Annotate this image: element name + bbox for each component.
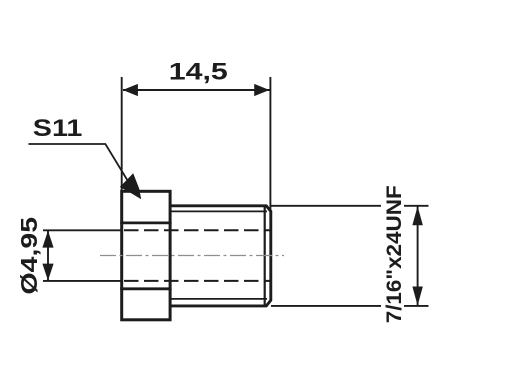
- hex head body: [122, 191, 170, 319]
- dim 14,5 extension line right: [269, 77, 271, 211]
- thread chamfer line: [264, 206, 266, 306]
- thread spec extension line top: [271, 205, 429, 207]
- thread spec arrow up: [412, 206, 423, 225]
- S11 leader line: [29, 144, 129, 182]
- dim 14,5 arrow left: [123, 84, 138, 96]
- thread root line bottom: [171, 298, 267, 300]
- centerline (chain line): [100, 255, 284, 257]
- bore hidden line top: [124, 229, 270, 231]
- thread spec extension line bottom: [271, 305, 429, 307]
- dim 14,5 arrow right: [254, 84, 269, 96]
- S11 leader arrowhead: [120, 173, 141, 199]
- dim 14,5 extension line left: [121, 77, 123, 190]
- thread root line top: [171, 210, 267, 212]
- dia 4,95 extension line top: [43, 229, 121, 231]
- dia 4,95 dimension line: [47, 231, 49, 280]
- svg-text:7/16"x24UNF: 7/16"x24UNF: [381, 185, 406, 323]
- hex facet line lower: [120, 287, 171, 290]
- svg-text:14,5: 14,5: [169, 60, 228, 86]
- hex facet line upper: [120, 221, 171, 224]
- dim 14,5 dimension line: [123, 89, 270, 91]
- dia 4,95 arrow up: [42, 231, 53, 248]
- svg-text:S11: S11: [33, 115, 82, 142]
- white mask behind rotated thread text: [381, 180, 404, 328]
- thread outline: [170, 206, 271, 306]
- thread spec dimension line: [417, 207, 419, 306]
- bore hidden line bottom: [124, 280, 270, 282]
- dia 4,95 arrow down: [42, 264, 53, 281]
- svg-text:Ø4,95: Ø4,95: [16, 217, 42, 295]
- thread spec arrow down: [412, 287, 423, 306]
- dia 4,95 extension line bottom: [43, 280, 121, 282]
